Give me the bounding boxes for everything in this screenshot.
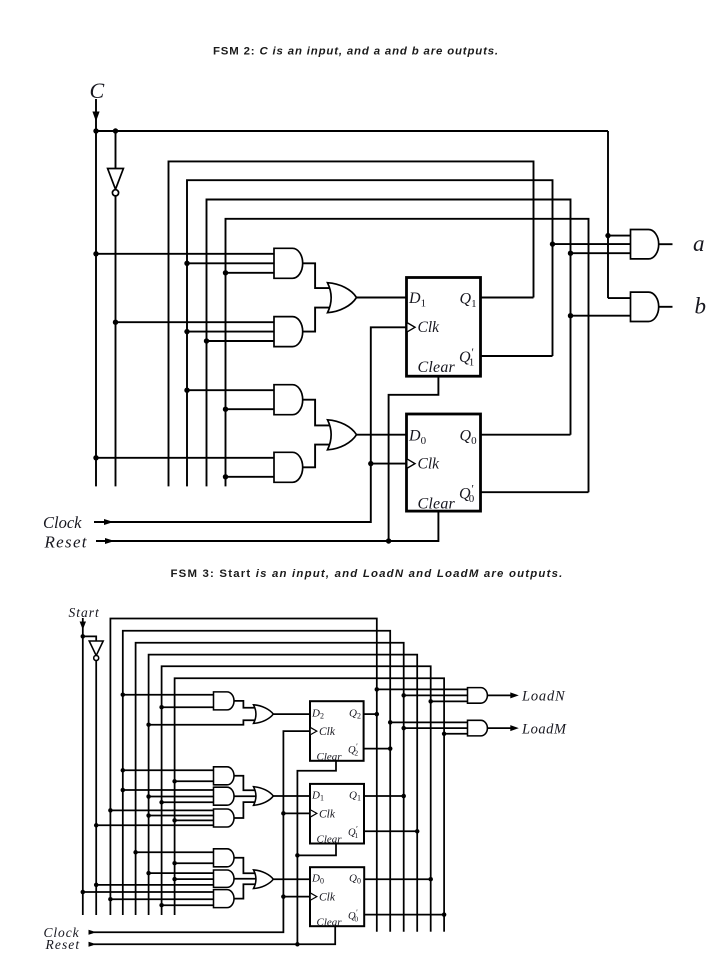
wire Clear1 jog down to reset vertical [389,376,439,541]
arrowhead LoadN output [510,692,519,698]
and gate g3a [214,849,235,867]
wire gate-a input mid [553,243,631,245]
wire AND3 input top from Q1b [187,389,274,391]
wire g2a input top [123,769,214,771]
wire g2c output jog [234,802,256,818]
svg-text:Clear: Clear [317,834,343,846]
and gate g3c [214,890,235,908]
wire Q0 output [364,878,431,880]
or gate g2or [254,787,274,806]
svg-text:Q′1: Q′1 [459,345,474,369]
wire C-prime vertical upper [115,131,117,168]
arrowhead LoadM output [510,725,519,731]
wire LoadN output [488,694,512,696]
wire C top distribution horizontal [96,130,608,132]
wire g3b input mid [175,878,214,880]
wire C right vertical to output gates [607,131,609,298]
and gate g2b [214,787,235,805]
wire v5 lower stub [430,879,432,932]
wire g1a output jog [234,701,256,708]
wire Q2b output [363,748,390,750]
svg-text:Clock: Clock [43,513,82,532]
wire Clear2 jog [297,761,336,945]
and gate output a [631,230,659,259]
wire feedback Q1 loop [136,643,404,915]
wire AND2 input bottom from Q0 [207,340,275,342]
wire g3a output jog [234,858,256,874]
svg-text:b: b [695,294,707,319]
wire g3c output jog [234,884,256,898]
wire feedback Q1b: right vertical, top horizontal, left vertical [187,180,553,486]
wire Q1b output [364,830,417,832]
wire Clk0 branch [371,463,407,465]
wire AND1 input top from C [96,253,274,255]
wire OR1 output to D1 [357,297,407,299]
wire Q1b output [481,355,553,357]
wire Q1 output [481,297,534,299]
clk triangle FF2 [311,728,317,735]
wire Start-prime branch [83,636,96,641]
wire g3b output [234,878,256,880]
svg-text:C: C [90,78,105,103]
svg-text:Clk: Clk [418,319,441,336]
svg-text:Clear: Clear [317,751,343,763]
wire g3c input mid [110,898,213,900]
svg-text:Reset: Reset [44,533,88,552]
svg-text:Clk: Clk [418,456,441,473]
wire LoadM gate input bottom [444,733,467,735]
or gate g1or [254,705,274,724]
wire LoadN gate input top [377,688,468,690]
wire gate-a input bottom [571,252,631,254]
wire g1a input bottom [162,706,214,708]
wire feedback Q2 loop [110,619,376,916]
wire g3b input bottom from Start-prime [96,884,213,886]
wire LoadM output [488,727,512,729]
wire g3a input bottom [175,862,214,864]
clk triangle FF0 [408,459,416,468]
svg-text:Start: Start [69,605,101,620]
wire AND4 input bottom from Q0b [226,476,275,478]
wire AND4 output jog to OR2 [303,445,332,468]
wire AND2 input top from C-prime [116,321,275,323]
wire g3c input bottom [162,904,214,906]
wire OR2 output to D0 [357,434,407,436]
wire C input stem [95,99,97,131]
and gate G2 [274,317,303,347]
wire g2c input 4 from Start-prime [96,824,213,826]
wire gate-b input top [608,297,631,299]
or gate OR1 [328,283,357,313]
svg-text:LoadM: LoadM [521,721,567,737]
flip-flop FF2 box [310,701,364,761]
svg-text:FSM 3: Start is an input, and: FSM 3: Start is an input, and LoadN and … [171,568,564,580]
flip-flop FF0 box [310,867,364,926]
wire v3 lower stub [403,796,405,932]
wire Start stem [82,618,84,636]
and gate LoadN [468,688,488,704]
wire g2c input 2 [149,815,214,817]
wire OR-D2 output [273,713,310,715]
wire output a stub [659,243,673,245]
svg-text:Clk: Clk [319,726,336,738]
arrowhead Clock input [104,519,114,525]
wire Q2 output [363,713,376,715]
wire Reset FSM3 to Clear0 [94,926,335,944]
svg-text:Clk: Clk [319,809,336,821]
wire g3c input top from Start [83,891,214,893]
wire Start-prime vertical [95,661,97,916]
svg-text:a: a [693,231,705,256]
svg-text:Clk: Clk [319,892,336,904]
wire AND2 input mid from Q1b [187,331,274,333]
wire clock ladder vertical with Clk1 [94,327,407,522]
svg-text:Clear: Clear [317,917,343,929]
arrowhead Start input [80,622,86,630]
wire g2b output [234,795,256,797]
wire v2 lower stub [389,749,391,932]
svg-text:Q′2: Q′2 [348,742,358,758]
and gate G4 [274,452,303,482]
wire AND2 output jog to OR1 [303,308,332,332]
wire feedback Q0 loop [162,666,431,915]
flip-flop FF0 box [407,414,481,511]
wire g1a input top [123,694,214,696]
wire gate-b input bottom [571,315,631,317]
and gate g3b [214,870,235,887]
inverter U1 on C [108,169,124,190]
wire clock ladder FSM3 [94,731,310,932]
wire C-prime branch horizontal [96,130,116,132]
wire C-prime vertical lower [115,196,117,486]
wire feedback Q0b loop [175,678,445,915]
wire g3a input top [136,851,214,853]
wire Q0 output [481,434,571,436]
wire g3b input top [149,872,214,874]
wire gate-a input top [608,235,631,237]
wire feedback Q1: right vertical, top horizontal, left vertical [169,161,534,486]
wire AND4 input top from C [96,457,274,459]
flip-flop FF1 box [407,278,481,377]
wire Start vertical [82,636,84,915]
wire LoadM gate input top [390,721,467,723]
arrowhead Reset input [105,538,115,544]
wire AND1 output jog to OR1 [303,263,332,288]
wire Reset to Clear0 [96,511,438,541]
arrowhead Reset FSM3 [89,942,97,947]
wire Q1 output [364,795,404,797]
svg-text:Clear: Clear [418,496,456,513]
wire Q0b output [364,914,444,916]
wire OR-D0 output [273,878,310,880]
arrowhead Clock FSM3 [89,930,97,935]
wire v1 lower stub [376,714,378,932]
flip-flop FF1 box [310,784,364,844]
wire feedback Q1b loop [149,655,418,915]
or gate OR2 [328,420,357,450]
wire Clk0 branch FSM3 [283,896,310,898]
wire Q0b output [481,491,589,493]
svg-text:Reset: Reset [45,937,81,952]
svg-text:Q′0: Q′0 [459,482,475,506]
or gate g3or [254,870,274,889]
wire OR-D1 output [273,795,310,797]
wire Clear1 jog [297,844,336,856]
arrowhead C input [92,112,99,122]
wire g2b input mid [149,796,214,798]
wire AND3 input bottom from Q0b [226,408,275,410]
and gate LoadM [468,720,488,736]
junction dots FSM2 [93,128,98,133]
junction dots FSM3 [81,634,86,639]
wire g2c input 3 [175,819,214,821]
wire AND3 output jog to OR2 [303,400,332,426]
svg-text:LoadN: LoadN [521,689,566,705]
clk triangle FF0 [311,893,317,900]
and gate output b [631,292,659,321]
wire LoadN gate input bottom [431,700,468,702]
wire g1or lower input from Q1b [149,720,256,724]
and gate g2a [214,767,235,785]
wire v4 lower stub [416,831,418,931]
wire output b stub [659,306,673,308]
and gate G1 [274,248,303,278]
wire feedback Q0: right vertical, top horizontal, left vertical [207,200,571,487]
wire g2a output jog [234,776,256,791]
wire feedback Q2b loop [123,631,390,915]
wire C left vertical [95,131,97,486]
svg-text:Clear: Clear [418,359,456,376]
svg-text:Q′0: Q′0 [348,908,358,924]
and gate G3 [274,385,303,415]
wire LoadM gate input mid [404,727,468,729]
clk triangle FF1 [408,323,416,332]
clk triangle FF1 [311,810,317,817]
wire AND1 input bottom from Q0b [226,272,275,274]
svg-text:Q′1: Q′1 [348,825,358,841]
wire v6 lower stub [443,915,445,932]
wire AND1 input mid from Q1b [187,262,274,264]
wire g2c input 1 [110,809,213,811]
wire g2a input bottom [175,780,214,782]
and gate g2c [214,809,235,827]
and gate g1a [214,692,235,710]
wire LoadN gate input mid [404,694,468,696]
wire g2b input bottom [162,801,214,803]
inverter U2 on Start [89,641,103,656]
wire Clk1 branch FSM3 [283,812,310,814]
wire g2b input top [123,789,214,791]
svg-text:FSM 2: C is an input, and a an: FSM 2: C is an input, and a and b are ou… [213,46,499,58]
wire feedback Q0b: right vertical, top horizontal, left vertical [226,219,589,492]
